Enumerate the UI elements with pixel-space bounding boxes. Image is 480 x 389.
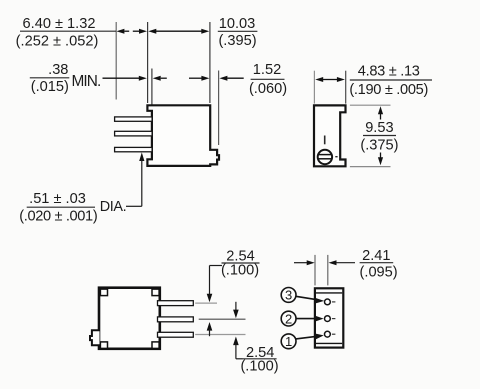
extension line B2 (body step) (151, 69, 153, 111)
dimension 10.03 fraction bar (218, 30, 258, 32)
svg-text:4.83 ± .13: 4.83 ± .13 (358, 64, 420, 80)
extension line E (313, 71, 315, 104)
dimension 2.41 fraction bar (360, 262, 394, 264)
svg-text:1: 1 (285, 334, 292, 349)
terminal label 1 (281, 334, 296, 349)
index mark above screw (324, 136, 326, 145)
svg-text:(.190 ± .005): (.190 ± .005) (349, 82, 428, 98)
extension line G (314, 255, 316, 286)
dimension 2.54 bottom up arrow with leader (233, 337, 242, 359)
dimension 2.54 bottom down arrow (233, 302, 239, 318)
arrow label 2 to hole (296, 316, 324, 322)
tick right of hole 2 (332, 318, 336, 320)
dimension 1.52 fraction bar (251, 78, 285, 80)
dimension .38 right arrow (153, 76, 167, 81)
svg-text:.38: .38 (48, 62, 68, 78)
svg-text:(.020 ± .001): (.020 ± .001) (19, 208, 97, 224)
dimension 9.53 fraction bar (363, 135, 396, 137)
svg-text:(.060): (.060) (249, 81, 287, 97)
dimension 2.54 bottom fraction bar (243, 358, 277, 360)
dimension 9.53 bottom extension (350, 166, 391, 168)
dimension 6.40 arrow right (133, 29, 147, 34)
pin 1 (bottom-left unit) (158, 301, 194, 306)
svg-text:(.395): (.395) (218, 33, 256, 49)
svg-text:(.252 ± .052): (.252 ± .052) (16, 34, 99, 50)
dimension 1.52 right arrow (219, 76, 243, 81)
dimension 2.54 top fraction bar (222, 262, 260, 264)
pin reference line 3 (195, 334, 245, 336)
extension line A (pin tip) (115, 22, 117, 100)
arrow label 1 to hole (296, 333, 324, 339)
extension line C (body right edge) (209, 22, 211, 103)
dimension 9.53 up arrow (378, 106, 383, 119)
body outline (end view) (314, 105, 346, 166)
tick right of screw (335, 156, 337, 158)
body outline (side view, pins left) (147, 105, 219, 166)
svg-text:(.375): (.375) (360, 138, 398, 154)
dimension 9.53 down arrow (378, 153, 383, 166)
dimension 4.83 fraction bar (350, 79, 432, 81)
pin 1 (top-left unit) (115, 117, 153, 121)
tick right of hole 3 (332, 301, 336, 303)
hole 3 (325, 299, 331, 305)
dimension .51 fraction bar (27, 206, 95, 208)
dimension 1.52 left arrow (189, 76, 209, 81)
rear view inner line bottom (316, 342, 342, 344)
dimension 2.54 top up arrow (207, 322, 213, 336)
svg-text:DIA.: DIA. (100, 199, 126, 215)
pin reference line 2 (199, 318, 246, 320)
pin 3 (bottom-left unit) (158, 332, 194, 337)
hole 1 (325, 331, 331, 337)
svg-text:3: 3 (285, 288, 292, 303)
svg-text:10.03: 10.03 (219, 16, 256, 32)
extension line B (body left edge) (147, 22, 149, 103)
terminal label 2 (281, 311, 296, 326)
svg-text:(.100): (.100) (240, 358, 278, 374)
dimension 2.41 right arrow (329, 260, 356, 265)
svg-text:9.53: 9.53 (365, 120, 393, 136)
svg-text:(.100): (.100) (221, 262, 259, 278)
extension line F (345, 71, 347, 104)
svg-text:.51 ± .03: .51 ± .03 (29, 191, 86, 207)
dimension 6.40: leader/fraction bar (20, 30, 116, 32)
corner pad top-right (152, 289, 159, 296)
svg-text:(.095): (.095) (360, 265, 398, 281)
adjustment screw (318, 150, 332, 164)
body outline (top view) (99, 288, 160, 349)
pin 3 (top-left unit) (115, 147, 153, 151)
svg-text:2.41: 2.41 (362, 248, 390, 264)
svg-text:6.40 ± 1.32: 6.40 ± 1.32 (23, 16, 96, 32)
extension line D (tab outer) (218, 71, 220, 146)
extension line H (327, 255, 329, 286)
dimension 2.41 left arrow (294, 260, 315, 265)
svg-text:MIN.: MIN. (72, 73, 101, 90)
corner pad bottom-right (152, 342, 159, 349)
dimension 4.83 arrows (315, 77, 345, 82)
svg-text:2: 2 (285, 311, 292, 326)
arrow label 3 to hole (296, 296, 324, 304)
corner pad bottom-left (100, 342, 107, 349)
rear view inner line top (316, 292, 342, 294)
svg-text:(.015): (.015) (31, 79, 69, 95)
dimension 6.40 arrow left (116, 29, 129, 34)
dimension 10.03 line (148, 29, 209, 34)
svg-text:1.52: 1.52 (253, 62, 281, 78)
corner pad top-left (100, 289, 107, 296)
dimension .51 DIA arrow to pin (126, 152, 144, 206)
pin reference line 1 (195, 302, 217, 304)
tick right of hole 1 (332, 333, 336, 335)
pin 2 (top-left unit) (115, 131, 153, 136)
terminal label 3 (281, 288, 296, 303)
hole 2 (325, 316, 331, 322)
pin 2 (bottom-left unit) (158, 317, 194, 322)
body outline (rear view) (315, 288, 343, 347)
dimension .38 fraction bar (30, 77, 70, 79)
dimension 2.54 top leader (210, 265, 223, 267)
dimension 9.53 top extension (350, 104, 391, 106)
dimension .38 leader arrow (103, 76, 147, 81)
left tab (90, 330, 100, 345)
dimension 2.54 top down arrow (207, 266, 213, 303)
